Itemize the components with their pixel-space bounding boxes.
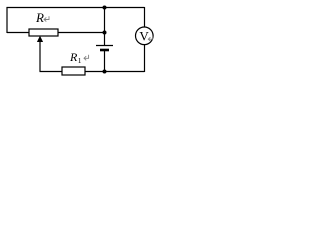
- wire: right vertical lower: [144, 45, 146, 72]
- svg-text:1: 1: [78, 56, 82, 65]
- wire: rheostat right lead: [58, 32, 105, 34]
- svg-text:V: V: [139, 28, 149, 43]
- wire: top rail: [7, 7, 145, 9]
- wire: battery vertical lower: [104, 51, 106, 72]
- wire: battery vertical upper: [104, 7, 106, 45]
- svg-text:R: R: [69, 50, 78, 64]
- pilcrow return mark after R1: [84, 55, 89, 61]
- resistor R (rheostat body): [29, 29, 58, 36]
- pilcrow return mark after R: [44, 16, 49, 21]
- slider arrow of rheostat: [37, 36, 43, 42]
- node junction dot at bottom rail: [103, 70, 107, 74]
- wire: bottom rail: [40, 71, 145, 73]
- wire: right vertical upper (to voltmeter): [144, 7, 146, 27]
- svg-text:R: R: [35, 10, 44, 25]
- wire: rheostat left lead: [7, 32, 29, 34]
- battery cell: long plate: [96, 45, 113, 47]
- wire: left vertical: [6, 7, 8, 33]
- voltmeter U1 circle: [136, 27, 154, 45]
- background: [0, 0, 159, 78]
- battery cell: short thick plate: [100, 49, 109, 52]
- pilcrow return mark after V: [148, 36, 152, 41]
- resistor R1: [62, 67, 85, 75]
- node junction dot at battery top rail: [103, 6, 107, 10]
- wire: slider stem: [39, 41, 41, 72]
- node junction dot rheostat right to battery wire: [103, 31, 107, 35]
